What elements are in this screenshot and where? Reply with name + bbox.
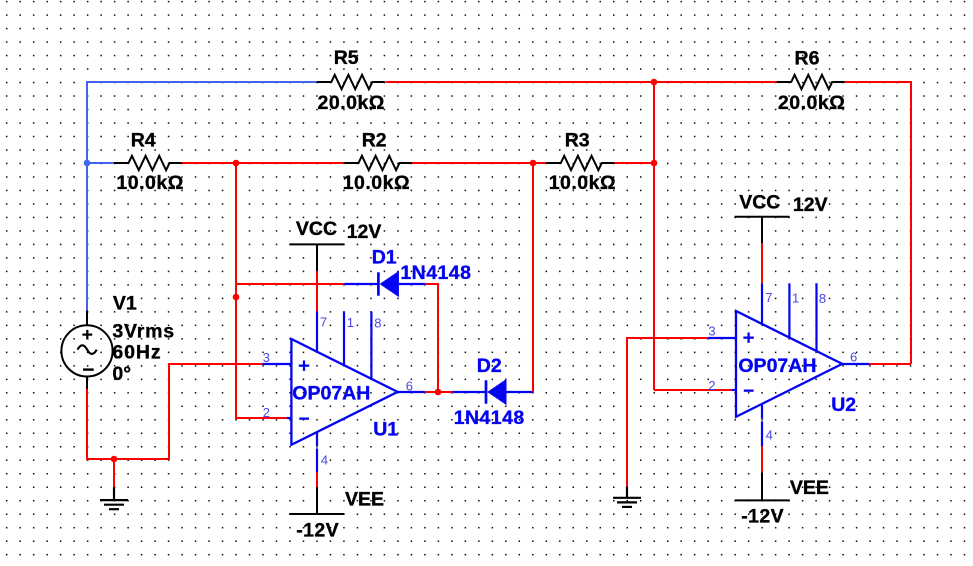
svg-text:10.0kΩ: 10.0kΩ [343,172,410,194]
svg-text:R4: R4 [131,130,156,152]
svg-text:6: 6 [850,349,857,364]
svg-text:1: 1 [347,315,354,330]
svg-text:3: 3 [708,323,715,338]
svg-text:2: 2 [708,378,715,393]
svg-text:-12V: -12V [296,519,339,541]
svg-text:OP07AH: OP07AH [292,383,370,405]
svg-text:3: 3 [263,350,270,365]
svg-text:10.0kΩ: 10.0kΩ [549,172,616,194]
svg-text:12V: 12V [793,194,828,216]
svg-text:1N4148: 1N4148 [454,407,525,429]
svg-text:8: 8 [374,316,381,331]
svg-text:R6: R6 [795,47,820,69]
svg-text:D1: D1 [372,247,397,269]
svg-text:1N4148: 1N4148 [400,262,471,284]
svg-text:U1: U1 [373,419,398,441]
svg-text:10.0kΩ: 10.0kΩ [116,172,183,194]
svg-text:V1: V1 [113,293,137,315]
svg-text:7: 7 [765,290,772,305]
svg-text:VCC: VCC [296,218,337,240]
svg-text:20.0kΩ: 20.0kΩ [778,92,845,114]
svg-text:60Hz: 60Hz [112,341,161,363]
svg-text:VCC: VCC [739,192,780,214]
svg-text:R2: R2 [362,130,387,152]
svg-text:12V: 12V [347,221,382,243]
svg-text:VEE: VEE [345,489,384,511]
svg-text:4: 4 [321,453,328,468]
svg-text:8: 8 [819,291,826,306]
svg-text:7: 7 [320,314,327,329]
svg-text:6: 6 [406,378,413,393]
svg-text:2: 2 [263,405,270,420]
svg-text:-12V: -12V [741,506,784,528]
svg-text:20.0kΩ: 20.0kΩ [318,92,385,114]
svg-text:0°: 0° [112,363,131,385]
svg-text:D2: D2 [477,355,502,377]
svg-text:1: 1 [792,290,799,305]
svg-text:3Vrms: 3Vrms [112,320,175,342]
svg-text:VEE: VEE [790,477,829,499]
svg-text:U2: U2 [831,394,856,416]
svg-text:R3: R3 [565,130,590,152]
svg-text:R5: R5 [334,47,359,69]
svg-text:4: 4 [766,428,773,443]
svg-text:OP07AH: OP07AH [738,355,816,377]
